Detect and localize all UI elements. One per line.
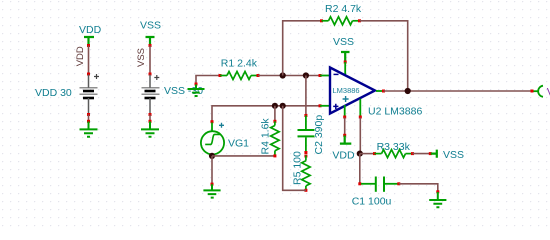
node: R5 return joins non-inverting rail bbox=[280, 103, 286, 109]
voltage generator VG1 bbox=[201, 120, 249, 156]
svg-text:VDD: VDD bbox=[79, 24, 102, 36]
capacitor C2 390p bbox=[298, 114, 326, 155]
ground (below VG1) bbox=[203, 183, 220, 198]
wire inverting rail down to C2 bbox=[305, 76, 307, 116]
node: VG1 bottom junction bbox=[209, 153, 215, 159]
ground (right of C1) bbox=[429, 190, 446, 207]
wire VSS T-bar to battery bbox=[149, 46, 151, 75]
ground (left of R1, overlapping VSS -30 text) bbox=[188, 83, 205, 97]
power label VSS (right of R3, sideways T) bbox=[429, 149, 464, 161]
svg-text:VSS: VSS bbox=[333, 36, 354, 48]
power label VDD (below op-amp, inverted T) bbox=[332, 134, 355, 162]
svg-text:C1 100u: C1 100u bbox=[352, 196, 392, 208]
power label VDD (top of VDD battery) bbox=[79, 24, 102, 47]
svg-text:VSS: VSS bbox=[136, 48, 147, 67]
wire mute pin down to R3/C1 node bbox=[359, 118, 361, 154]
resistor R1 2.4k bbox=[219, 58, 260, 80]
op-amp U1 input lead (inverting) bbox=[319, 74, 330, 77]
capacitor C1 100u bbox=[352, 177, 401, 208]
wire node to R3 bbox=[360, 153, 374, 155]
power label VSS (top of VSS battery) bbox=[140, 20, 161, 48]
wire node down to C1 bbox=[359, 154, 361, 184]
node: feedback riser joins output bbox=[405, 88, 411, 94]
node: C2 branch joins inverting rail bbox=[303, 72, 309, 78]
wire C1 to ground bbox=[399, 184, 438, 192]
power label VSS (above op-amp) bbox=[333, 36, 354, 64]
wire battery VDD to ground bbox=[88, 115, 90, 121]
op-amp output lead bbox=[376, 90, 385, 93]
svg-text:VDD: VDD bbox=[75, 46, 86, 66]
op-amp U2 LM3886 bbox=[330, 68, 422, 118]
svg-text:R3 33k: R3 33k bbox=[377, 141, 411, 153]
wire R2 right to output riser bbox=[360, 21, 408, 91]
resistor R5 100 bbox=[292, 151, 311, 192]
wire output to port bbox=[384, 90, 532, 92]
ground (below VDD battery) bbox=[80, 120, 98, 137]
op-amp bottom supply pin lead (VDD) bbox=[343, 105, 346, 119]
wire VDD T-bar to battery V1 bbox=[88, 46, 90, 75]
wire non-inverting rail to R4 top bbox=[274, 106, 276, 121]
battery VSS (-30V) bbox=[142, 73, 160, 117]
op-amp top supply pin lead bbox=[344, 62, 346, 75]
svg-text:VSS: VSS bbox=[140, 20, 161, 32]
svg-text:U2 LM3886: U2 LM3886 bbox=[368, 106, 422, 118]
wire R3 to VSS jumper bbox=[413, 153, 431, 155]
wire VG1 top to non-inverting rail bbox=[212, 106, 320, 121]
battery VDD (30V) bbox=[80, 73, 100, 117]
wire battery VSS to ground bbox=[149, 115, 151, 121]
node: feedback joins inverting rail bbox=[280, 72, 286, 78]
resistor R4 1.6k bbox=[260, 118, 280, 158]
svg-text:LM3886: LM3886 bbox=[333, 86, 360, 95]
wire VG1 bottom to R4 bottom bbox=[212, 155, 274, 157]
node: R4 joins non-inverting rail bbox=[272, 103, 278, 109]
svg-text:VDD: VDD bbox=[332, 150, 355, 162]
wire R1 to op-amp inverting input bbox=[258, 75, 320, 77]
wire R5 bottom back to non-inverting rail bbox=[283, 106, 306, 191]
wire VG1 bottom to ground bbox=[211, 156, 213, 183]
output port (right edge) bbox=[531, 86, 550, 99]
wire feedback left riser (R2 left to inverting node) bbox=[283, 21, 322, 76]
svg-text:R2 4.7k: R2 4.7k bbox=[325, 3, 362, 15]
svg-text:VSS: VSS bbox=[443, 149, 464, 161]
wire ground riser to R1 left bbox=[196, 76, 220, 85]
ground (below VSS battery) bbox=[141, 120, 159, 137]
wire VDD pin to VDD T-bar bbox=[344, 118, 346, 135]
node: mute pin / R3 / C1 junction bbox=[357, 151, 363, 157]
svg-text:VDD 30: VDD 30 bbox=[35, 87, 72, 99]
svg-text:VG1: VG1 bbox=[228, 138, 249, 150]
op-amp U1 input lead (non-inverting) bbox=[319, 104, 330, 107]
resistor R2 4.7k (feedback) bbox=[320, 3, 362, 25]
svg-text:C2 390p: C2 390p bbox=[313, 115, 325, 155]
svg-text:R1 2.4k: R1 2.4k bbox=[221, 58, 258, 70]
op-amp mute pin lead bbox=[359, 99, 362, 119]
resistor R3 33k bbox=[373, 141, 414, 158]
